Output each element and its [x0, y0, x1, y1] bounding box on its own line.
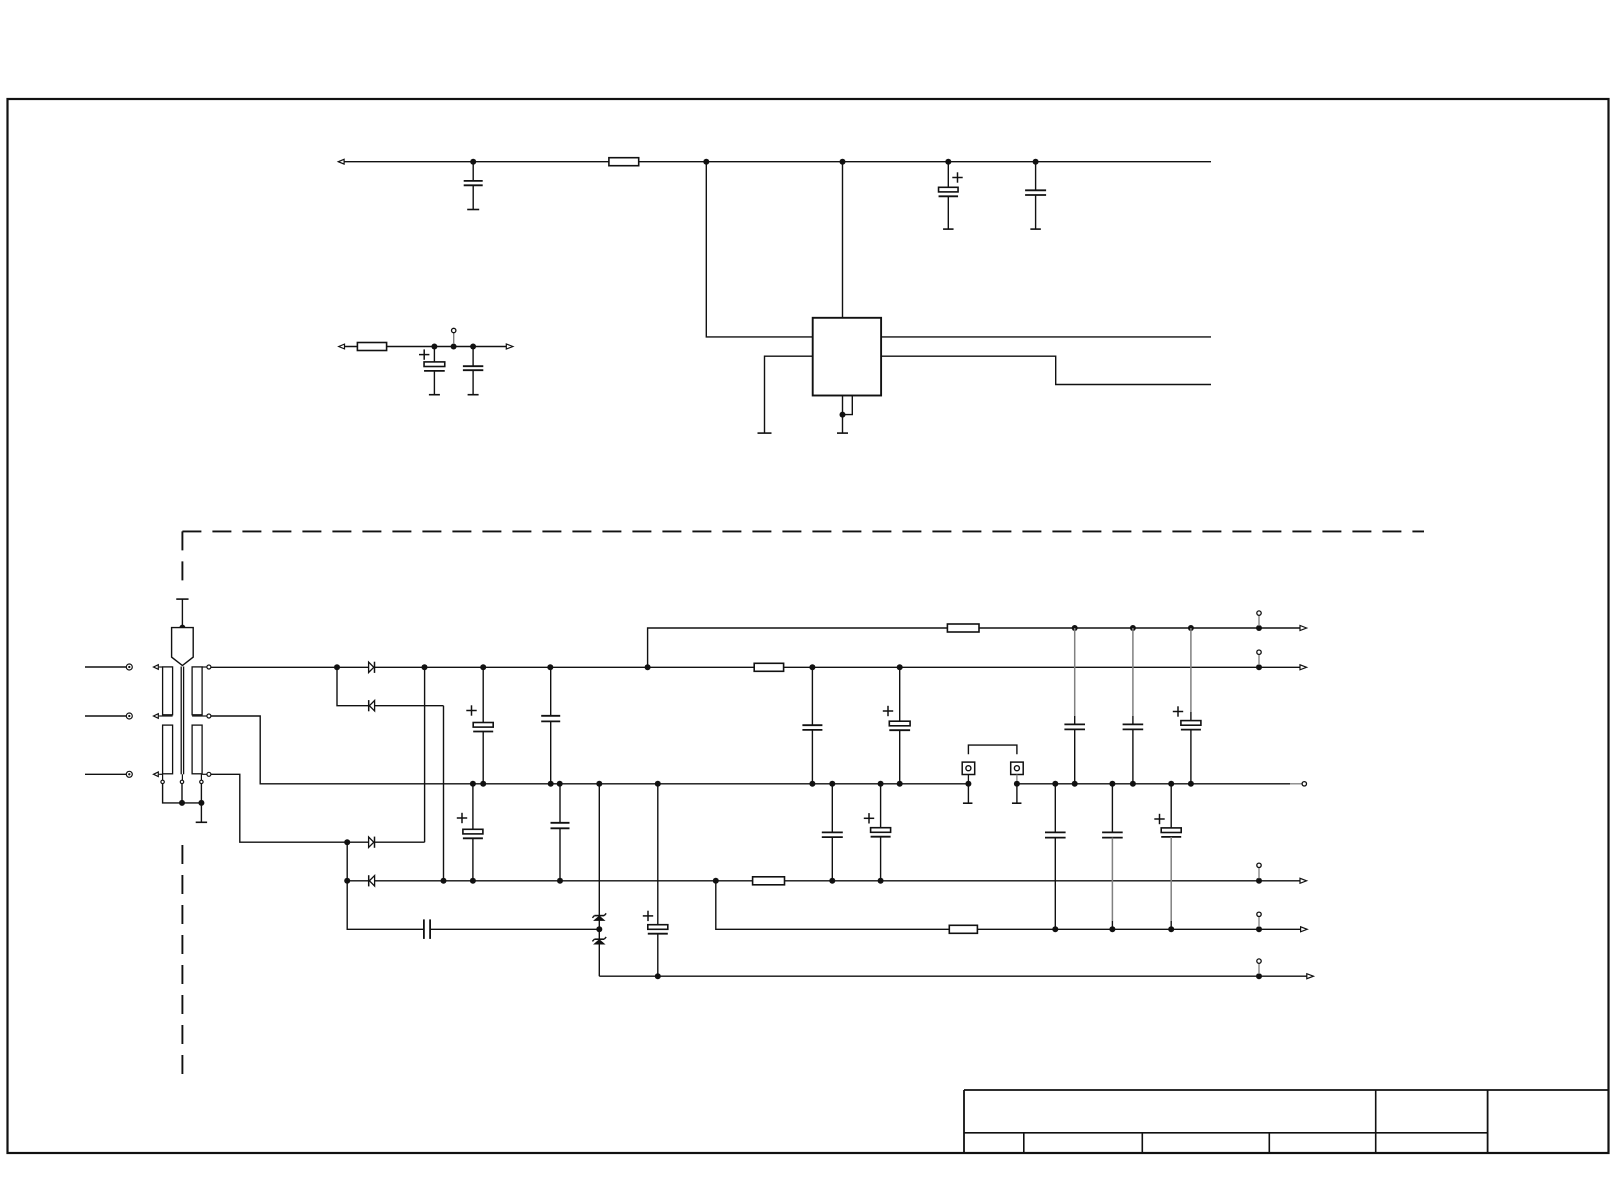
- wire U1 bottom pin 2 jog: [843, 396, 853, 415]
- arrow output row F: [1301, 927, 1308, 932]
- zener Z2: [592, 937, 606, 976]
- wire transformer tap bus: [163, 784, 202, 803]
- ground stub spark gap G1: [963, 784, 973, 803]
- spark gap G1: [962, 762, 975, 781]
- node junction mid rail C5: [470, 344, 476, 350]
- dashed boundary vertical: [181, 531, 183, 1076]
- resistor R6: [949, 925, 977, 933]
- capacitor C17: [1123, 628, 1144, 784]
- terminal circle mid rail: [452, 328, 456, 344]
- wire top rail to U1 left pin: [706, 162, 812, 337]
- capacitor C3: [1025, 162, 1046, 229]
- capacitor C6 electrolytic: [466, 667, 493, 784]
- capacitor C10 electrolytic: [457, 784, 483, 881]
- pin circle secondary mid: [192, 714, 211, 718]
- resistor R2: [357, 343, 386, 351]
- zener Z1: [592, 784, 606, 939]
- node junction zener mid: [596, 926, 602, 932]
- capacitor C9 electrolytic: [883, 667, 910, 784]
- terminal circle output row B: [1257, 650, 1261, 665]
- capacitor C5: [463, 347, 483, 395]
- ground stub spark gap G2: [1012, 784, 1022, 803]
- capacitor C16: [1064, 628, 1085, 784]
- pin arrow primary mid: [154, 714, 173, 719]
- dashed boundary horizontal: [182, 530, 1424, 532]
- input connector line PE: [85, 771, 132, 777]
- node junction tap bus center: [179, 800, 185, 806]
- diode D2: [369, 701, 374, 711]
- input connector line L: [85, 664, 132, 670]
- capacitor C13 electrolytic: [643, 784, 668, 976]
- wire row F left segment with coupling cap: [347, 881, 599, 930]
- node junctions row B: [334, 664, 1262, 670]
- node junctions row E: [344, 878, 1262, 884]
- transformer T1 secondary winding lower: [192, 725, 202, 774]
- capacitor C1: [464, 162, 483, 210]
- transformer T1 core: [181, 667, 183, 775]
- capacitor C2 electrolytic: [939, 162, 963, 229]
- node junction top rail U1 feed: [703, 159, 709, 165]
- pin circle secondary bottom: [202, 772, 211, 776]
- resistor R4: [947, 624, 979, 632]
- terminal circle output row E: [1257, 863, 1261, 878]
- arrow output row E: [1300, 878, 1307, 883]
- wire U1 right lower pin: [881, 356, 1211, 384]
- capacitor C11: [551, 784, 570, 881]
- pin circle bobbin tap right: [200, 774, 203, 783]
- capacitor C4 electrolytic: [419, 347, 445, 395]
- pin circle secondary top: [202, 665, 211, 669]
- capacitor C15 electrolytic: [864, 784, 891, 881]
- terminal circle output row G: [1257, 959, 1261, 974]
- node junction shield: [179, 625, 185, 631]
- wire row G rail: [599, 975, 1307, 977]
- input connector line N: [85, 713, 132, 719]
- diode D3: [369, 837, 374, 847]
- transformer T1 primary winding upper: [163, 667, 173, 715]
- resistor R5: [753, 877, 785, 885]
- arrow output row B: [1300, 665, 1307, 670]
- pin circle bobbin tap center: [180, 774, 183, 783]
- capacitor C21 electrolytic: [1154, 784, 1181, 930]
- transformer T1 secondary winding upper: [192, 667, 202, 715]
- terminal circle output row A: [1257, 611, 1261, 626]
- node junction top rail C2: [945, 159, 951, 165]
- capacitor C12 coupling: [424, 919, 430, 939]
- wire row B +V rectified rail: [211, 666, 1301, 668]
- capacitor C8: [802, 667, 822, 784]
- capacitor C20: [1102, 784, 1123, 930]
- wire row C right part: [1017, 783, 1302, 785]
- capacitor C19: [1045, 784, 1066, 930]
- ground stub transformer tap: [196, 803, 207, 822]
- wire row A +V output rail: [648, 628, 1301, 667]
- node junction row D: [344, 839, 350, 845]
- wire U1 left lower pin stub: [758, 356, 813, 433]
- resistor R1: [609, 158, 639, 166]
- wire top +V rail: [344, 161, 1211, 163]
- wire U1 bottom pin ground stub: [837, 396, 848, 434]
- terminal circle row C: [1302, 782, 1306, 786]
- wire row F right segment: [716, 881, 1302, 930]
- node junction U1 bottom pins: [840, 412, 846, 418]
- wire U1 right upper pin: [881, 336, 1211, 338]
- arrow output row G: [1307, 974, 1314, 979]
- capacitor C14: [822, 784, 843, 881]
- pin arrow primary top: [154, 665, 163, 670]
- wire diode D2 branch: [337, 667, 444, 881]
- transformer T1 primary winding lower: [163, 725, 173, 774]
- diode D1: [369, 662, 374, 672]
- node junctions row A: [1072, 625, 1262, 631]
- title block outline: [964, 1090, 1609, 1153]
- node junctions row F: [1052, 926, 1262, 932]
- wire row D rectifier branch: [211, 667, 425, 842]
- capacitor C7: [541, 667, 560, 784]
- op-amp U1 regulator box: [813, 318, 881, 396]
- node junction mid rail C4: [431, 344, 437, 350]
- capacitor C18 electrolytic: [1173, 628, 1201, 784]
- arrow output row A: [1300, 626, 1307, 631]
- node junction tap bus right: [198, 800, 204, 806]
- node junction mid rail terminal: [451, 344, 457, 350]
- node junction top rail C3: [1033, 159, 1039, 165]
- pin arrow primary bottom: [154, 772, 163, 777]
- spark gap G2: [1011, 762, 1024, 781]
- terminal circle output row F: [1257, 912, 1261, 927]
- arrow top rail input: [338, 159, 344, 164]
- wire mid reference rail: [345, 346, 507, 348]
- transformer T1 shield funnel: [172, 628, 194, 666]
- wire top rail to U1 top pin: [842, 162, 844, 318]
- wire spark gap bridge: [968, 745, 1017, 754]
- arrow mid rail right: [506, 344, 513, 349]
- resistor R3: [754, 663, 783, 671]
- arrow mid rail left: [339, 344, 345, 349]
- node junction row G C13: [655, 973, 661, 979]
- node junction top rail C1: [470, 159, 476, 165]
- pin circle bobbin tap left: [161, 774, 164, 783]
- diode D4: [369, 876, 374, 886]
- wire row E -V rail: [347, 842, 1301, 881]
- wire row C mid rail from transformer: [211, 716, 969, 784]
- node junction top rail U1 top pin: [840, 159, 846, 165]
- transformer T1 shield stub: [176, 599, 188, 628]
- node junctions row C: [470, 781, 1194, 787]
- node junction row G output: [1256, 973, 1262, 979]
